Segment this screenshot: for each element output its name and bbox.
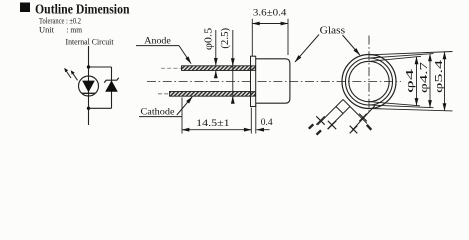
dim phi4 oblique bottom xyxy=(370,102,420,106)
node bottom junction xyxy=(87,107,90,110)
flange anode pass-through hatched xyxy=(251,66,255,71)
svg-text:Glass: Glass xyxy=(320,25,346,36)
glass leader right xyxy=(343,35,360,55)
svg-text:Unit: Unit xyxy=(39,24,55,34)
anode label underline xyxy=(136,45,179,47)
front view vertical centerline xyxy=(368,36,370,113)
dim 14.5 line xyxy=(182,129,251,131)
flange plate xyxy=(251,56,256,106)
wire main vertical xyxy=(88,46,90,125)
svg-text:φ0.5: φ0.5 xyxy=(204,28,215,50)
break mark X1 xyxy=(316,116,324,124)
dim 2.5 line xyxy=(232,30,234,101)
break tick D2 xyxy=(367,125,372,130)
dim 04 arrow xyxy=(257,129,270,131)
dim phi05 text xyxy=(204,28,215,50)
dim 14.5 ext line left xyxy=(181,98,183,134)
lead projection line 5 xyxy=(350,107,367,124)
dim phi47 vertical xyxy=(429,54,431,108)
svg-text:φ4.7: φ4.7 xyxy=(418,61,430,93)
svg-text:: mm: : mm xyxy=(67,24,83,34)
dim 2.5 arrow up xyxy=(232,96,234,103)
svg-text:φ5.4: φ5.4 xyxy=(433,59,445,93)
cathode label underline xyxy=(139,116,182,118)
dim phi05 arrow top xyxy=(215,30,217,65)
centerline axis xyxy=(147,81,401,83)
svg-text:Internal Circuit: Internal Circuit xyxy=(66,36,115,46)
dim 3.6 ext line left xyxy=(251,19,253,56)
break tick D1b xyxy=(317,130,322,134)
dim 2.5 text xyxy=(220,28,231,49)
dim phi4 oblique top xyxy=(370,56,421,61)
wire bottom branch xyxy=(89,107,112,109)
dim 3.6 ext line right xyxy=(287,19,289,55)
can body xyxy=(256,59,290,103)
dim 04 ext line xyxy=(255,105,257,134)
dim phi54 oblique top xyxy=(370,52,453,55)
break mark X3 xyxy=(359,114,367,122)
flange cathode pass-through hatched xyxy=(251,92,255,97)
svg-text:φ4: φ4 xyxy=(404,68,416,93)
dim phi47 oblique bottom xyxy=(370,105,434,108)
glass leader left xyxy=(295,35,319,62)
break mark X2 xyxy=(328,121,336,129)
svg-text:Outline Dimension: Outline Dimension xyxy=(35,1,130,16)
dim phi54 oblique bottom xyxy=(370,109,453,111)
LED D1 cathode bar xyxy=(82,92,95,94)
lead projection line A1 xyxy=(318,100,344,126)
dim phi4 text xyxy=(404,68,416,93)
anode leader xyxy=(179,46,191,64)
svg-text:(2.5): (2.5) xyxy=(220,28,231,49)
dim phi05 arrow bottom xyxy=(215,71,217,78)
LED D1 triangle xyxy=(82,81,95,93)
lead projection line B1 xyxy=(352,106,375,131)
wire right branch vertical xyxy=(111,67,113,108)
break tick D1 xyxy=(309,124,314,128)
anode lead break dashes xyxy=(161,67,182,69)
svg-text:Anode: Anode xyxy=(144,36,171,47)
lead projection diamond edge TR xyxy=(343,100,350,107)
dim phi54 vertical xyxy=(444,52,446,111)
svg-text:0.4: 0.4 xyxy=(261,117,273,127)
cathode lead bar xyxy=(170,92,251,97)
lead projection line A2 xyxy=(328,107,351,130)
dim 2.5 arrow down xyxy=(232,58,234,66)
svg-text:3.6±0.4: 3.6±0.4 xyxy=(253,7,287,17)
node top junction xyxy=(87,65,90,68)
zener diode ZD triangle xyxy=(105,80,118,91)
dim phi47 text xyxy=(418,61,430,93)
cathode leader xyxy=(177,97,193,115)
LED light arrow 1 xyxy=(66,70,71,78)
can front view glass circle xyxy=(349,61,389,101)
svg-text:Cathode: Cathode xyxy=(141,107,176,118)
svg-text:14.5±1: 14.5±1 xyxy=(196,118,230,128)
dim 3.6 line xyxy=(252,23,288,25)
dim phi54 text xyxy=(433,59,445,93)
can front view middle circle xyxy=(346,58,393,105)
lead projection diamond edge LB xyxy=(336,107,343,114)
dim phi4 vertical xyxy=(416,57,418,106)
LED D1 circle xyxy=(79,76,99,96)
header bullet square xyxy=(20,3,30,13)
zener diode ZD bar xyxy=(104,78,119,83)
break mark X4 xyxy=(350,126,358,134)
cathode lead break dashes xyxy=(158,93,170,95)
dim 14.5 ext line right xyxy=(250,108,252,134)
dim phi47 oblique top xyxy=(370,54,434,58)
wire top branch xyxy=(89,66,112,68)
anode lead bar xyxy=(182,66,251,71)
LED light arrow 2 xyxy=(72,72,77,80)
can front view outer circle xyxy=(342,55,396,109)
